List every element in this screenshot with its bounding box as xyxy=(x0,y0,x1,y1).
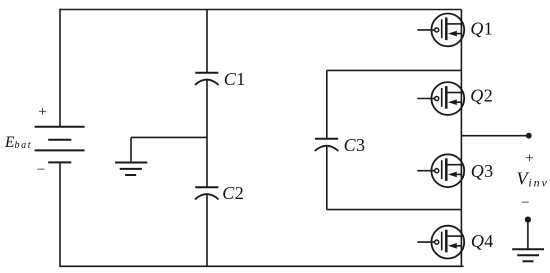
svg-text:C3: C3 xyxy=(344,135,366,155)
svg-text:+: + xyxy=(38,104,46,120)
svg-text:C1: C1 xyxy=(224,69,246,89)
svg-text:Q2: Q2 xyxy=(470,85,493,105)
svg-text:bat: bat xyxy=(15,140,33,151)
svg-text:inv: inv xyxy=(528,176,548,190)
svg-text:Q3: Q3 xyxy=(471,161,494,181)
svg-text:C2: C2 xyxy=(222,183,244,203)
svg-text:E: E xyxy=(4,134,15,151)
svg-text:−: − xyxy=(521,195,529,211)
svg-text:Q1: Q1 xyxy=(470,19,493,39)
svg-text:Q4: Q4 xyxy=(471,231,494,251)
svg-text:+: + xyxy=(525,151,533,167)
svg-text:−: − xyxy=(37,162,45,178)
